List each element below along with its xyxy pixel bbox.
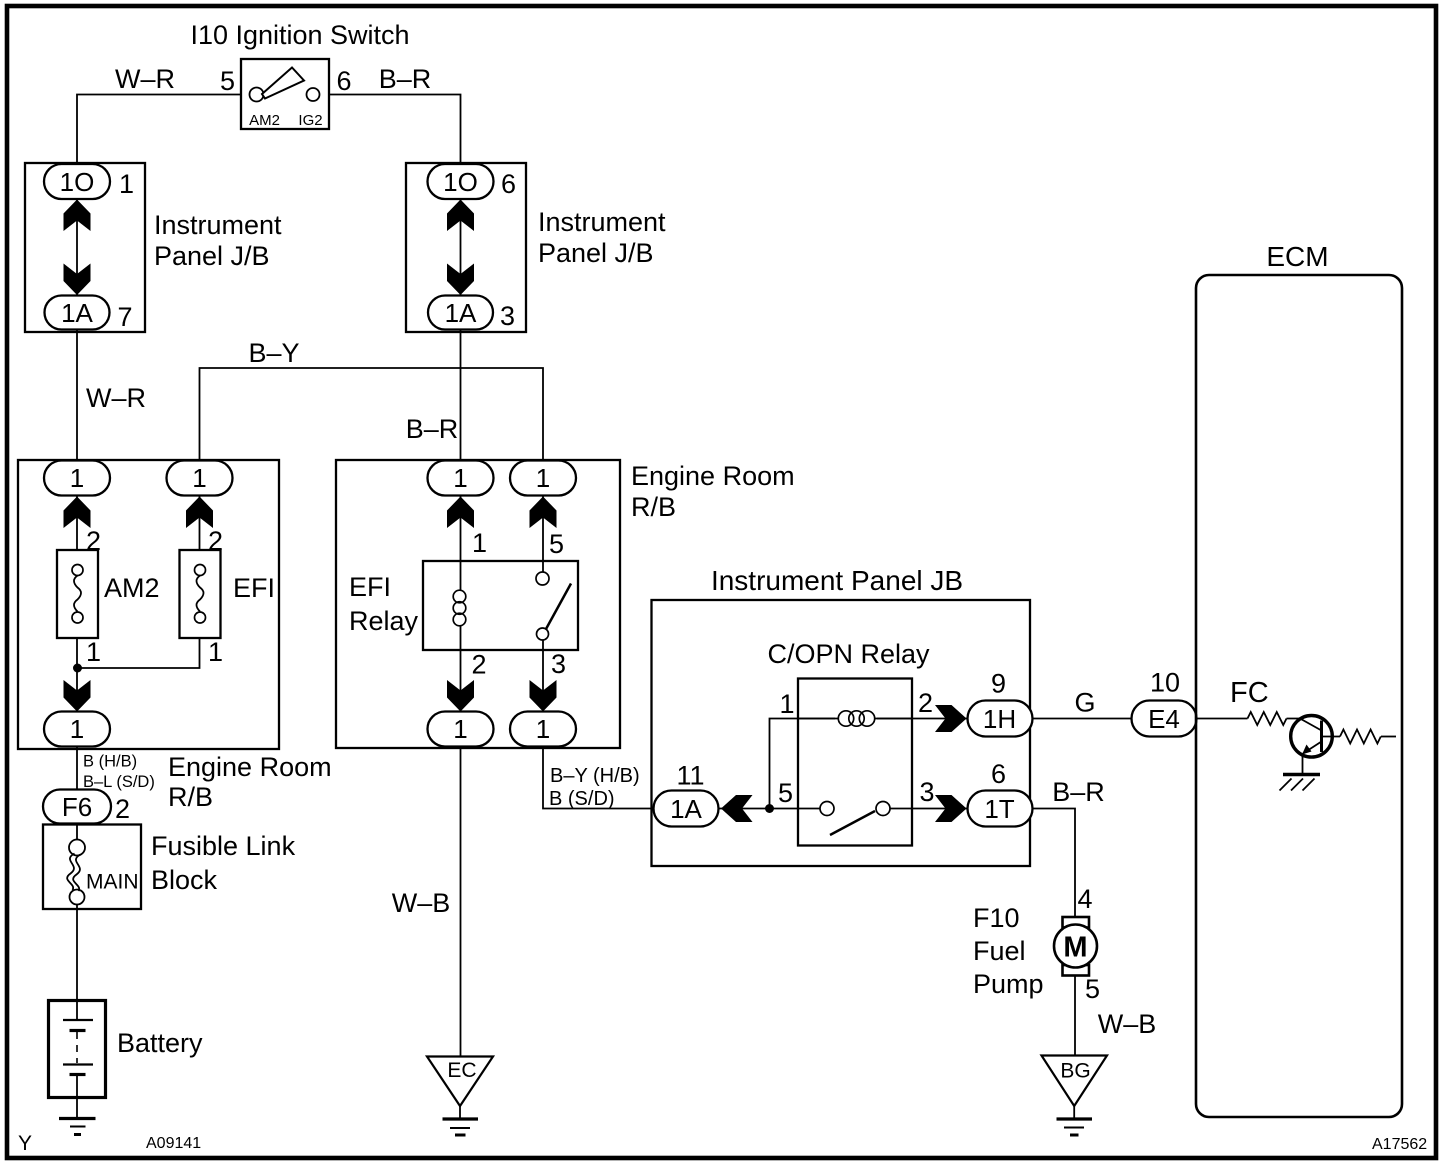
svg-text:1: 1 <box>70 714 84 744</box>
svg-text:Y: Y <box>18 1132 32 1155</box>
svg-text:9: 9 <box>991 669 1006 699</box>
svg-text:1: 1 <box>780 689 795 719</box>
wire battery to ground <box>76 1075 78 1118</box>
svg-text:Block: Block <box>151 865 218 895</box>
svg-text:1: 1 <box>70 463 84 493</box>
connector 1O (J/B1) <box>44 164 110 199</box>
svg-text:Instrument: Instrument <box>154 210 282 240</box>
svg-text:Instrument Panel JB: Instrument Panel JB <box>711 565 963 596</box>
connector F6 <box>43 790 111 824</box>
wire collector <box>1322 736 1341 738</box>
svg-text:6: 6 <box>337 66 352 96</box>
resistor (collector) <box>1340 730 1381 744</box>
svg-text:Panel J/B: Panel J/B <box>538 238 654 268</box>
svg-text:B–L (S/D): B–L (S/D) <box>83 773 155 791</box>
junction node (C/OPN) <box>765 804 774 813</box>
svg-text:EFI: EFI <box>233 573 275 603</box>
ground (EC) <box>443 1119 479 1135</box>
wire C/OPN coil to pin2 <box>877 718 967 720</box>
wire G from 1H to E4 <box>1032 718 1132 720</box>
wire W-B from R/B2 to EC ground <box>460 747 462 1057</box>
svg-text:W–B: W–B <box>1098 1009 1157 1039</box>
fuel pump motor F10 <box>1054 917 1097 976</box>
wire C/OPN pin1 riser <box>770 719 836 809</box>
wire EFI relay coil column <box>460 496 462 711</box>
svg-text:1T: 1T <box>984 794 1014 824</box>
wire BG to ground bars <box>1073 1106 1075 1118</box>
svg-text:6: 6 <box>991 759 1006 789</box>
svg-text:AM2: AM2 <box>249 112 280 129</box>
connector 1 (R/B1 right top) <box>167 461 233 496</box>
svg-text:1: 1 <box>472 528 487 558</box>
wire W-R from J/B1 to R/B1 <box>76 330 78 461</box>
svg-text:M: M <box>1063 932 1087 964</box>
connector 1O (J/B2) <box>428 164 494 199</box>
svg-text:A17562: A17562 <box>1372 1136 1427 1153</box>
Engine Room R/B right box <box>336 460 620 748</box>
Instrument Panel J/B right box <box>406 163 526 332</box>
svg-text:R/B: R/B <box>631 492 676 522</box>
svg-text:1: 1 <box>119 169 134 199</box>
svg-text:EFI: EFI <box>349 572 391 602</box>
connector 1A (J/B1) <box>45 296 110 330</box>
svg-text:W–B: W–B <box>392 888 451 918</box>
svg-text:1: 1 <box>453 714 467 744</box>
connector 1A (JB) <box>654 791 719 827</box>
transistor FC (NPN) <box>1291 716 1333 758</box>
terminal IG2 contact <box>307 88 320 101</box>
svg-text:G: G <box>1074 688 1095 718</box>
svg-text:3: 3 <box>500 301 515 331</box>
svg-text:Fusible Link: Fusible Link <box>151 831 296 861</box>
svg-text:ECM: ECM <box>1266 241 1328 272</box>
svg-text:F6: F6 <box>62 792 92 822</box>
connector 1 (R/B2 left top) <box>428 461 494 496</box>
C/OPN relay coil <box>798 711 912 726</box>
svg-text:Pump: Pump <box>973 969 1044 999</box>
svg-text:B–R: B–R <box>406 414 459 444</box>
C/OPN relay contact <box>820 802 890 836</box>
svg-text:FC: FC <box>1230 677 1269 709</box>
Instrument Panel JB box <box>652 600 1031 866</box>
svg-text:EC: EC <box>447 1059 476 1082</box>
internal wire J/B1 <box>76 199 78 296</box>
ground triangle EC <box>427 1057 493 1107</box>
svg-text:I10 Ignition Switch: I10 Ignition Switch <box>190 20 409 50</box>
fusible link MAIN <box>67 840 85 905</box>
wire B-R from 1T to fuel pump <box>1032 809 1075 918</box>
svg-text:Engine Room: Engine Room <box>168 752 332 782</box>
wire B-R from ignition switch IG2 to J/B2 <box>329 95 461 165</box>
svg-text:F10: F10 <box>973 903 1020 933</box>
wire C/OPN pin5 row <box>719 808 820 810</box>
svg-text:1A: 1A <box>445 298 477 328</box>
svg-text:BG: BG <box>1060 1060 1090 1083</box>
down arrow R/B2 left <box>447 680 474 712</box>
svg-text:10: 10 <box>1150 668 1180 698</box>
wire emitter to ground <box>1302 754 1304 775</box>
up arrow R/B1 left <box>64 497 91 529</box>
EFI relay box <box>423 561 578 650</box>
svg-text:E4: E4 <box>1148 704 1180 734</box>
svg-text:Panel J/B: Panel J/B <box>154 241 270 271</box>
svg-text:2: 2 <box>472 650 487 680</box>
fuse EFI <box>180 550 221 638</box>
wire C/OPN contact to pin3 <box>890 808 967 810</box>
svg-text:5: 5 <box>1085 974 1100 1004</box>
C/OPN relay box <box>798 679 912 846</box>
svg-text:5: 5 <box>778 778 793 808</box>
down arrow J/B1 <box>64 264 91 296</box>
svg-text:B (S/D): B (S/D) <box>549 788 615 810</box>
wire EC to ground bars <box>459 1106 461 1118</box>
Instrument Panel J/B left box <box>25 163 145 332</box>
up arrow J/B2 <box>447 200 474 232</box>
ground triangle BG <box>1042 1056 1108 1107</box>
svg-text:1: 1 <box>536 714 550 744</box>
svg-text:IG2: IG2 <box>298 112 322 129</box>
svg-text:Instrument: Instrument <box>538 207 666 237</box>
svg-text:7: 7 <box>118 302 133 332</box>
connector 1 (R/B1 left top) <box>44 461 110 496</box>
terminal AM2 contact <box>250 88 264 102</box>
svg-text:1A: 1A <box>61 298 93 328</box>
svg-text:Engine Room: Engine Room <box>631 461 795 491</box>
connector 1H (JB) <box>968 701 1033 737</box>
svg-text:3: 3 <box>920 777 935 807</box>
svg-text:5: 5 <box>549 529 564 559</box>
down arrow J/B2 <box>447 264 474 296</box>
svg-text:6: 6 <box>501 169 516 199</box>
svg-text:1: 1 <box>86 637 101 667</box>
svg-text:Relay: Relay <box>349 606 419 636</box>
svg-text:C/OPN Relay: C/OPN Relay <box>767 639 930 669</box>
connector 1 (R/B2 right top) <box>510 461 576 496</box>
ground (BG) <box>1057 1119 1093 1135</box>
wire E4 to base resistor <box>1197 718 1248 720</box>
svg-text:Battery: Battery <box>117 1028 203 1058</box>
svg-text:2: 2 <box>918 688 933 718</box>
wire resistor to transistor base <box>1287 719 1322 731</box>
up arrow R/B2 left <box>447 497 474 529</box>
Fusible Link Block box <box>43 825 141 910</box>
connector 1 (R/B1 bottom) <box>44 712 110 747</box>
connector 1T (JB) <box>968 791 1033 827</box>
svg-text:Fuel: Fuel <box>973 936 1026 966</box>
svg-text:1O: 1O <box>60 167 95 197</box>
EFI relay contact <box>536 572 571 640</box>
wire from R/B1 to fusible link block <box>76 747 78 791</box>
wire from R/B2 pin3 to Instrument Panel JB 1A <box>543 747 654 809</box>
wire B-Y from R/B1 to R/B2 <box>200 368 544 461</box>
battery <box>49 1001 106 1098</box>
svg-text:W–R: W–R <box>115 64 175 94</box>
up arrow R/B2 right <box>530 497 557 529</box>
svg-text:1: 1 <box>453 463 467 493</box>
junction node <box>73 664 82 673</box>
svg-text:W–R: W–R <box>86 383 146 413</box>
wire AM2 fuse column <box>76 496 78 711</box>
wire fusible link to battery <box>76 905 78 1020</box>
wire B-R from J/B2 to R/B2 <box>460 330 462 461</box>
svg-text:B–R: B–R <box>1052 777 1105 807</box>
svg-text:1A: 1A <box>670 794 702 824</box>
wire W-B from pump to BG <box>1074 976 1076 1056</box>
svg-text:1: 1 <box>192 463 206 493</box>
svg-text:1: 1 <box>536 463 550 493</box>
right arrow to 1H <box>935 705 967 732</box>
ignition switch I10 box <box>241 59 329 129</box>
ECM box <box>1196 275 1402 1117</box>
left arrow to 1A <box>721 795 753 822</box>
up arrow R/B1 right <box>186 497 213 529</box>
ground (battery) <box>59 1119 96 1135</box>
fuse AM2 <box>57 550 98 638</box>
svg-text:1H: 1H <box>983 704 1016 734</box>
wire EFI relay contact column <box>542 496 544 711</box>
up arrow J/B1 <box>64 200 91 232</box>
EFI relay coil <box>453 590 466 626</box>
connector E4 <box>1132 701 1197 737</box>
svg-text:3: 3 <box>551 649 566 679</box>
resistor (base) <box>1248 712 1287 725</box>
svg-text:B–R: B–R <box>379 64 432 94</box>
wire F6 to fusible link <box>76 824 78 841</box>
svg-text:R/B: R/B <box>168 782 213 812</box>
svg-text:MAIN: MAIN <box>86 871 139 894</box>
connector 1 (R/B2 bottom right) <box>510 712 576 747</box>
wire EFI fuse column <box>78 496 200 668</box>
connector 1 (R/B2 bottom left) <box>428 712 494 747</box>
connector 1A (J/B2) <box>428 296 493 330</box>
svg-text:AM2: AM2 <box>104 573 160 603</box>
svg-text:B (H/B): B (H/B) <box>83 753 137 771</box>
svg-text:B–Y: B–Y <box>248 338 299 368</box>
svg-text:2: 2 <box>115 794 130 824</box>
Engine Room R/B left box <box>18 460 279 749</box>
down arrow R/B1 <box>64 680 91 712</box>
internal wire J/B2 <box>460 199 462 296</box>
right arrow to 1T <box>935 795 967 822</box>
svg-text:11: 11 <box>677 761 705 791</box>
svg-text:1O: 1O <box>443 167 478 197</box>
svg-text:A09141: A09141 <box>146 1135 201 1152</box>
ground hatch (ECM) <box>1280 775 1321 791</box>
svg-text:1: 1 <box>208 637 223 667</box>
svg-text:5: 5 <box>220 66 235 96</box>
wire W-R from ignition switch AM2 to J/B1 <box>77 95 241 165</box>
down arrow R/B2 right <box>530 680 557 712</box>
switch lever <box>262 68 304 99</box>
svg-text:B–Y (H/B): B–Y (H/B) <box>550 765 640 787</box>
wire collector end <box>1381 736 1396 738</box>
svg-text:4: 4 <box>1078 884 1093 914</box>
